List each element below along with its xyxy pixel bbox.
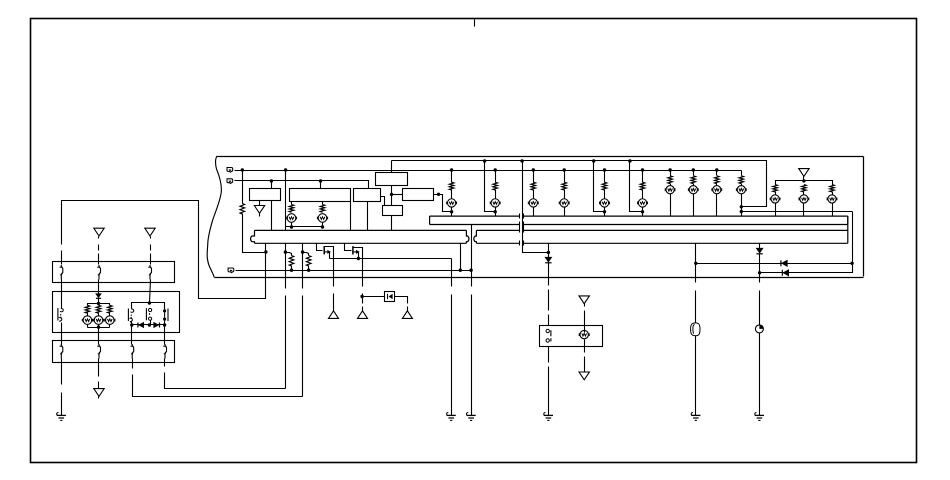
junction rail2 left [130, 323, 133, 326]
wire tap to diode box [363, 296, 385, 298]
wire bus drop sub1 [317, 244, 323, 251]
triangle marker above lamp L16 [579, 296, 589, 304]
wire B5 out [434, 195, 452, 212]
lamp L10 [689, 186, 697, 194]
wire vert1 below [333, 294, 335, 311]
wire B2a right drop to busL [350, 202, 352, 231]
wire lamp L9 mid [670, 184, 672, 186]
wire lamp L4 mid [495, 190, 497, 199]
triangle marker below L16 [579, 372, 589, 380]
lamp L3 [447, 199, 455, 207]
junction x696 [694, 262, 697, 265]
wire lamp L8 lower [642, 207, 644, 217]
ground G4 [755, 412, 757, 415]
connector symbol P1 [691, 323, 700, 336]
wire x99 dash2 [98, 254, 100, 265]
wire lamp L9 lower [670, 194, 672, 217]
wire lampR2 bottom [832, 203, 834, 217]
triangle marker top x99 [94, 228, 104, 236]
terminal hook C3-1 [61, 344, 63, 359]
junction L1 rail [290, 225, 293, 228]
lamp L13 [771, 195, 779, 203]
wire N3 jog to R18 [303, 253, 309, 256]
wire lamp L10 mid [693, 184, 695, 186]
ground G5 [544, 412, 546, 415]
wire netA feed into B3 [391, 161, 393, 173]
wire x150 below C1 [150, 280, 151, 303]
wire sub2 tophook to vert [354, 248, 363, 287]
junction netB lamp5 [532, 168, 535, 171]
diode D3 [782, 260, 787, 266]
switch S2 contact2 [149, 317, 152, 320]
wire lamp L7 lower [604, 207, 606, 217]
diode D2 [389, 294, 393, 299]
wire x471 down [471, 271, 473, 287]
lamp L7 [600, 199, 608, 207]
connector pin tick sub2 [352, 246, 354, 254]
wire lamp L5 mid [533, 190, 535, 199]
wire x150 tri tail [150, 237, 152, 239]
wire lamp L12 upper [741, 171, 743, 176]
wire relay rail2 [132, 322, 165, 325]
wire triangle stub [803, 177, 805, 181]
junction lamp feed [494, 210, 497, 213]
connector pin tick sub1 [323, 246, 325, 254]
wire vert2 below [362, 294, 364, 297]
wire sub1 tophook to vert [325, 247, 334, 287]
node N3 [301, 250, 304, 253]
wire lamp L5 upper [533, 171, 535, 183]
terminal hook C3-4 [165, 344, 167, 359]
junction lamp feed [603, 210, 606, 213]
resistor R12 [715, 176, 720, 184]
junction B3B4 [390, 193, 393, 196]
bus bar upper section1 edges [430, 216, 520, 224]
lamp L1 [287, 214, 296, 223]
wire sub line down x451 [451, 259, 453, 287]
splice tick right [523, 228, 525, 233]
wire x696 to ground [695, 336, 697, 416]
lamp cluster [83, 316, 92, 325]
box B1 [250, 189, 281, 201]
wire lamp L12 mid [741, 184, 743, 186]
arrow contact sub2 [356, 250, 360, 254]
resistor R18 [306, 256, 311, 267]
ground G6 [57, 412, 59, 415]
wire B1 triangle tail [259, 214, 261, 217]
wire busL drop x460 [460, 244, 462, 271]
wire B3 to B4 [391, 186, 393, 206]
wire D1 to switch box [548, 263, 550, 286]
lamp L5 [529, 199, 537, 207]
wire lamp L10 lower [693, 194, 695, 217]
wire x285 rise [285, 296, 287, 389]
wire T1 drop [242, 171, 244, 204]
wire R17 to net3 [291, 266, 293, 271]
wire R1 to node [243, 214, 266, 253]
wire x99 tri tail2 [98, 397, 100, 399]
wire diode line2 [760, 264, 853, 273]
resistor R14 [773, 185, 778, 192]
lamp L14 [800, 195, 808, 203]
wire B1 to busL [271, 201, 273, 231]
resistor R8 [602, 182, 607, 190]
junction cluster bottom [97, 325, 100, 328]
wire bus stub to splice node [548, 244, 550, 253]
junction net2 B1 [270, 179, 273, 182]
switch S1 contact upper [546, 329, 549, 332]
wire cluster mid [109, 313, 111, 317]
wire cluster rail1 [88, 304, 110, 306]
wire x61 upper dash [61, 209, 63, 245]
resistor R16 [830, 185, 835, 192]
wire lamp L8 mid [642, 190, 644, 199]
wire lamp group rail [776, 181, 833, 185]
resistor R10 [668, 176, 673, 184]
wire netB drop to busL [285, 171, 287, 231]
terminal hook C1-3 [150, 265, 152, 280]
wire x99 dash3 [98, 382, 100, 389]
wire x99 below C1 [98, 280, 100, 294]
junction rail2 right [163, 323, 166, 326]
junction L12 netA [740, 205, 743, 208]
junction netB lamp6 [563, 168, 566, 171]
bus bar main-right left tab [474, 230, 477, 243]
wire x61 below X1 [61, 323, 63, 345]
arrow contact sub1 [327, 250, 331, 254]
resistor R2 [289, 205, 294, 213]
wire sub2 out [358, 253, 360, 259]
junction net3 x471 [469, 269, 472, 272]
wire net-3 horizontal [236, 270, 472, 272]
node vert2 diode tap [360, 295, 363, 298]
resistor R13 [739, 176, 744, 184]
junction L2 rail [321, 225, 324, 228]
wire cluster rail2 [88, 327, 110, 329]
wire lamp L6 lower [564, 207, 566, 217]
switch S2 contact1 [149, 308, 152, 311]
resistor R1 [240, 204, 245, 215]
junction netA x593 [592, 159, 595, 162]
wire lamp L8 upper [642, 171, 644, 183]
junction relay rail1 [148, 301, 151, 304]
terminal T1 [227, 168, 233, 173]
wire lamp L2 top [322, 202, 324, 205]
wire lamp16 dash bot [584, 357, 586, 373]
wire lamp L1 bottom [291, 223, 293, 227]
lamp L12 [737, 186, 745, 194]
wire sub1 long line [330, 258, 452, 260]
splice tick right [523, 214, 525, 219]
junction netB x285 [284, 168, 287, 171]
lamp L9 [666, 186, 674, 194]
junction net2 B2a [319, 179, 322, 182]
wire D1 to switch box 3 [548, 315, 550, 326]
wire N2 jog to R16 [286, 253, 292, 256]
wire x165 below rail2 [164, 325, 166, 345]
connector pair X1 [57, 308, 59, 321]
junction netB lamp9 [668, 168, 671, 171]
junction netA x484 [483, 159, 486, 162]
splice tick left [519, 241, 521, 246]
wire lampR1 mid [803, 192, 805, 195]
diode D7 [139, 323, 144, 328]
wire upper bus drop x471 [471, 225, 473, 271]
wire bus drop x696 [695, 244, 697, 283]
wire x132 below rail2 [131, 325, 133, 345]
switch S2 dash [148, 313, 150, 315]
wire lampR0 mid [775, 192, 777, 195]
junction netB lamp10 [692, 168, 695, 171]
wire net-B horizontal [235, 170, 742, 172]
wire net2 into B1 [271, 181, 273, 189]
module M1 torn left edge [207, 156, 221, 277]
wire lamp L2 bottom [322, 223, 324, 227]
lamp L4 [491, 199, 499, 207]
node splice out [547, 251, 550, 254]
splice tick left [519, 222, 521, 228]
wire sub1 out [329, 253, 331, 259]
wire lamp16 dash top2 [584, 311, 586, 333]
junction netB lamp8 [641, 168, 644, 171]
wire net-2 horizontal [235, 181, 369, 189]
junction R18 net3 [307, 269, 310, 272]
wire x302 rise2 [302, 253, 304, 289]
resistor cluster [85, 305, 90, 313]
wire lamp L4 upper [495, 171, 497, 183]
wire busL to N1 [265, 244, 267, 253]
wire lampR1 bottom [803, 203, 805, 217]
splice tick left [519, 214, 521, 219]
terminal hook C3-3 [132, 344, 134, 359]
bus bar main-left edges [255, 230, 467, 243]
wire net-A horizontal [392, 161, 767, 207]
ground G2 [466, 412, 468, 415]
wire netA feed lamp7 [594, 161, 605, 212]
junction netB lamp3 [450, 168, 453, 171]
bus bar main-left right tab [466, 230, 469, 243]
wire x99 tri tail [98, 237, 100, 239]
ground G3 [691, 412, 693, 415]
wire cluster bot [87, 325, 89, 328]
wire B4 to busL [391, 216, 393, 231]
wire sub1 arrow lead [325, 251, 328, 253]
junction lamp group rail [802, 179, 805, 182]
junction lamp cluster top [97, 302, 100, 305]
junction netA x629 [628, 159, 631, 162]
wire lamp rail [286, 226, 323, 228]
wire switch dash2 [548, 367, 550, 416]
wire B2b to B4 step [381, 197, 385, 206]
wire splice vertical [523, 161, 549, 253]
wire diode line1 [696, 263, 853, 265]
resistor R6 [531, 182, 536, 190]
resistor R11 [691, 176, 696, 184]
junction B5 out [437, 193, 440, 196]
wire lampR0 bottom [775, 203, 777, 217]
switch S1 contact lower [546, 339, 549, 342]
connector symbol P2 [755, 325, 763, 333]
wire lamp L5 lower [533, 207, 535, 217]
resistor R5 [493, 182, 498, 190]
lamp cluster [94, 316, 103, 325]
wire cluster bot [98, 325, 100, 328]
wire lamp L6 upper [564, 171, 566, 183]
lamp cluster [106, 316, 115, 325]
wire junction to B5 [392, 194, 403, 196]
wire x99 dash [98, 245, 100, 251]
wire lamp16 dash top1 [584, 304, 586, 307]
wire vert x852 [852, 212, 854, 264]
module M1 top edge [217, 156, 864, 158]
triangle marker top x150 [145, 228, 155, 236]
triangle marker bottom x99 [94, 389, 104, 397]
junction lamp feed [450, 210, 453, 213]
resistor R3 [320, 205, 325, 213]
wire cluster bot [109, 325, 111, 328]
ground G1 [447, 412, 449, 415]
triangle marker A2 [358, 311, 368, 319]
junction line1 right [850, 262, 853, 265]
wire switch below box [548, 347, 550, 363]
wire relay rail1 [132, 303, 165, 309]
wire x61 dash to gnd [61, 393, 63, 416]
junction netA splice [520, 159, 523, 162]
junction netB lamp7 [603, 168, 606, 171]
junction lamp feed [641, 210, 644, 213]
module M1 bottom edge [215, 277, 864, 279]
wire x759 lower [759, 291, 761, 325]
wire diode out below [407, 307, 409, 311]
module M1 right edge [863, 157, 865, 277]
wire lamp L1 top [291, 202, 293, 205]
splice tick left [519, 228, 521, 233]
wire lamp L3 lower [451, 207, 453, 217]
wire lamp L7 upper [604, 171, 606, 183]
wire net2 stub to B2a [320, 181, 322, 189]
wire B1 stub [259, 201, 261, 206]
wire x165 dash [165, 373, 286, 389]
junction rail2 mid [148, 323, 151, 326]
connector box C3 [53, 341, 175, 363]
wire netA feed lamp4 [485, 161, 496, 212]
terminal T2 [227, 179, 233, 184]
wire vert2 below3 [362, 307, 364, 311]
triangle marker under B1 [254, 206, 264, 214]
tick mark top border [474, 20, 476, 27]
resistor R17 [289, 256, 294, 267]
switch S2 bar [145, 308, 147, 320]
lamp L15 [828, 195, 836, 203]
wire lamp L10 upper [693, 171, 695, 176]
wire D1 down [548, 253, 550, 258]
box B5 [403, 189, 434, 201]
resistor cluster [108, 305, 113, 313]
wire D4 down [759, 254, 761, 283]
wire bus drop x759 [759, 244, 761, 249]
diode D8 [154, 323, 159, 328]
junction R17 net3 [290, 269, 293, 272]
wire busL drop x302 [302, 244, 304, 253]
wire N1 loop to left group [62, 201, 266, 299]
lamp L2 [318, 214, 327, 223]
wire lamp L3 mid [451, 190, 453, 199]
wire lamp L11 mid [716, 184, 718, 186]
wire x61 below C3 [61, 359, 63, 385]
wire D1 to switch box 2 [548, 290, 550, 311]
wire lamp16 below [584, 340, 586, 353]
wire bus drop sub2 [345, 244, 352, 251]
wire lamp L12 lower [741, 194, 743, 217]
terminal hook C1-1 [61, 265, 63, 280]
wire R18 to net3 [308, 266, 310, 271]
terminal hook C1-2 [99, 265, 101, 280]
resistor R9 [640, 182, 645, 190]
bus bar main-right edges [476, 216, 847, 243]
wire x61 upper dash2 [61, 251, 63, 265]
resistor R4 [449, 182, 454, 190]
terminal T3 [228, 268, 234, 273]
diode D4 [756, 248, 762, 253]
triangle marker A3 [402, 311, 412, 319]
wire x150 dash2 [150, 254, 152, 265]
wire lamp L4 lower [495, 207, 497, 217]
wire lamp L7 mid [604, 190, 606, 199]
wire x302 rise [302, 296, 304, 397]
wire diode box out [395, 297, 408, 304]
wire B2b drop to busL [367, 202, 369, 231]
diode D1 [545, 257, 551, 262]
diode D6 [96, 294, 101, 298]
wire cluster mid [87, 313, 89, 317]
bus bar main-left left tab [251, 230, 255, 243]
wire x132 below C3 [132, 359, 134, 369]
junction L12 out [740, 210, 743, 213]
lamp L8 [638, 199, 646, 207]
wire cluster out [98, 328, 100, 345]
box B4 [383, 206, 403, 216]
box B2a [290, 189, 351, 202]
triangle marker above lamps [799, 169, 809, 177]
lamp L16 [580, 330, 588, 338]
wire x165 below C3 [164, 359, 166, 367]
wire lampR2 mid [832, 192, 834, 195]
wire S2 to rail2 [150, 321, 152, 325]
wire vert2 below2 [362, 297, 364, 304]
switch S1 blade [550, 330, 552, 341]
wire D6 to rail [98, 299, 100, 304]
wire lamp L6 mid [564, 190, 566, 199]
node N1 [264, 250, 267, 253]
resistor R7 [562, 182, 567, 190]
junction sub2 line [357, 257, 360, 260]
triangle marker A1 [329, 311, 339, 319]
splice tick right [523, 241, 525, 246]
connector box C2 [53, 292, 180, 333]
junction netB lamp11 [715, 168, 718, 171]
wire cluster mid [98, 313, 100, 317]
wire x759 to ground [759, 333, 761, 416]
box SW outline [540, 326, 603, 347]
junction net3 x460 [459, 269, 462, 272]
bus bar upper section2 edges [524, 216, 848, 224]
wire x61 below C1 [61, 280, 63, 308]
connector pair X3 [167, 309, 169, 322]
wire x132 dash [133, 375, 303, 397]
wire x285 rise2 [285, 253, 287, 289]
connector box C1 [53, 262, 175, 283]
wire x471 to ground [471, 295, 473, 416]
